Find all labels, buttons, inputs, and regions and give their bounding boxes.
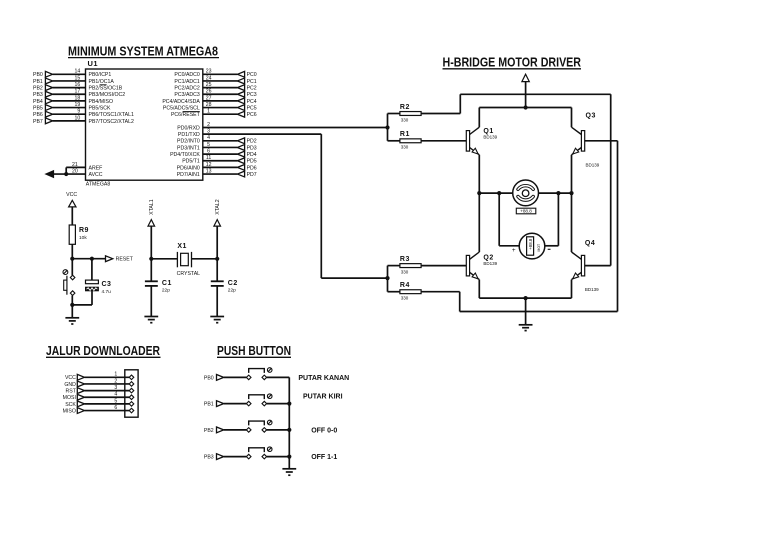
svg-text:PUSH BUTTON: PUSH BUTTON bbox=[217, 343, 291, 358]
terminal PB1 bbox=[33, 78, 53, 85]
ground C1 bbox=[144, 317, 158, 323]
svg-text:MOSI: MOSI bbox=[63, 395, 76, 401]
svg-text:VCC: VCC bbox=[66, 192, 77, 198]
wire U1 AVCC pin 20 bbox=[53, 168, 85, 174]
wire into Q3 base bbox=[585, 140, 618, 142]
svg-text:RESET: RESET bbox=[116, 257, 134, 263]
svg-text:330: 330 bbox=[401, 145, 409, 150]
wire U1 AREF pin 21 bbox=[66, 162, 85, 174]
svg-text:PB2: PB2 bbox=[33, 86, 43, 92]
terminal PC3 bbox=[237, 91, 256, 98]
svg-text:AVCC: AVCC bbox=[89, 172, 103, 178]
wire PC1 to U1 pin 24 bbox=[203, 75, 238, 81]
svg-text:CRYSTAL: CRYSTAL bbox=[177, 271, 201, 277]
pin 1 J1 bbox=[129, 375, 134, 380]
terminal PB0 pushbutton bbox=[204, 375, 224, 382]
svg-text:PC2: PC2 bbox=[247, 86, 257, 92]
wire SCK to J1 pin 5 bbox=[85, 398, 130, 404]
wire TXD to R3/R4 node bbox=[321, 277, 387, 279]
svg-text:9: 9 bbox=[77, 109, 80, 115]
wire PB3 to U1 pin 17 bbox=[53, 89, 86, 95]
wire motor loop right vertical bbox=[557, 193, 559, 246]
terminal PB3 pushbutton bbox=[204, 454, 224, 461]
resistor R2 bbox=[400, 104, 421, 122]
push button 3 bbox=[246, 420, 272, 432]
terminal PB5 bbox=[33, 105, 53, 112]
wire R3 to Q2 base bbox=[421, 265, 466, 267]
wire C3 top to reset wire bbox=[91, 259, 93, 280]
junction bus PB1 bbox=[287, 402, 291, 406]
wire to R2 bbox=[388, 113, 400, 115]
wire button 2 to bus bbox=[267, 403, 290, 405]
resistor R1 bbox=[400, 131, 421, 149]
wire TXD vertical drop bbox=[320, 134, 322, 278]
svg-text:XTAL1: XTAL1 bbox=[149, 199, 155, 215]
svg-text:PC2/ADC2: PC2/ADC2 bbox=[174, 86, 199, 92]
wire mid rail to Q4 collector bbox=[571, 193, 573, 252]
wire Q1 emitter to mid rail bbox=[478, 155, 480, 193]
wire PC4 to U1 pin 27 bbox=[203, 95, 238, 101]
svg-text:4.7u: 4.7u bbox=[102, 289, 112, 295]
wire GND to J1 pin 2 bbox=[85, 378, 130, 384]
svg-text:3: 3 bbox=[114, 385, 117, 391]
terminal PC2 bbox=[237, 85, 256, 92]
wire XTAL1 down bbox=[150, 226, 152, 259]
title H-BRIDGE MOTOR DRIVER bbox=[443, 55, 582, 70]
power VCC arrow bbox=[69, 200, 76, 207]
svg-text:PD6: PD6 bbox=[247, 165, 257, 171]
wire R2 to corner bbox=[421, 113, 460, 115]
svg-text:10k: 10k bbox=[79, 235, 87, 241]
svg-text:PC0: PC0 bbox=[247, 72, 257, 78]
wire PD7 to U1 pin 13 bbox=[203, 168, 238, 174]
terminal XTAL2 bbox=[214, 199, 221, 226]
transistor Q4 bbox=[572, 240, 600, 292]
wire pushbutton ground bus bbox=[288, 377, 290, 468]
svg-text:SCK: SCK bbox=[65, 402, 76, 408]
wire motor loop left vertical bbox=[498, 193, 500, 246]
wire PB1 to U1 pin 15 bbox=[53, 75, 86, 81]
svg-text:+88.8: +88.8 bbox=[528, 238, 533, 250]
svg-text:PB0/ICP1: PB0/ICP1 bbox=[89, 72, 112, 78]
junction TXD node bbox=[385, 276, 389, 280]
svg-text:VCC: VCC bbox=[65, 375, 76, 381]
svg-text:PD3: PD3 bbox=[247, 145, 257, 151]
junction mid rail right bbox=[569, 191, 573, 195]
svg-text:+: + bbox=[512, 247, 516, 254]
wire top rail bbox=[479, 107, 571, 109]
svg-text:PD4/T0/XCK: PD4/T0/XCK bbox=[170, 152, 200, 158]
motor M1 bbox=[513, 180, 539, 206]
wire RST to J1 pin 3 bbox=[85, 385, 130, 391]
svg-text:PD7/AIN1: PD7/AIN1 bbox=[177, 172, 200, 178]
svg-text:15: 15 bbox=[75, 75, 81, 81]
wire PB4 to U1 pin 18 bbox=[53, 95, 86, 101]
junction motor loop left bbox=[497, 191, 501, 195]
wire to R1 bbox=[388, 140, 400, 142]
svg-text:28: 28 bbox=[206, 102, 212, 108]
svg-text:U1: U1 bbox=[88, 59, 99, 68]
wire motor loop left horizontal bbox=[499, 245, 519, 247]
junction XTAL2 node bbox=[215, 257, 219, 261]
push button 4 bbox=[246, 447, 272, 459]
junction motor loop right bbox=[556, 191, 560, 195]
wire XTAL1 node to C1 bbox=[150, 259, 152, 281]
svg-text:PB4: PB4 bbox=[33, 99, 43, 105]
terminal MISO downloader bbox=[63, 408, 85, 415]
svg-text:PC1/ADC1: PC1/ADC1 bbox=[174, 79, 199, 85]
svg-text:+88.8: +88.8 bbox=[520, 209, 532, 214]
terminal PD5 bbox=[237, 158, 256, 165]
terminal PB6 bbox=[33, 111, 53, 118]
connector J1 downloader bbox=[125, 370, 138, 417]
wire XTAL2 down bbox=[216, 226, 218, 259]
terminal PB4 bbox=[33, 98, 53, 105]
wire R2 route down to Q4 base bbox=[610, 94, 612, 265]
wire R4 route up to Q3 base bbox=[617, 141, 619, 312]
svg-text:6: 6 bbox=[114, 405, 117, 411]
wire VCC to J1 pin 1 bbox=[85, 372, 130, 378]
svg-text:330: 330 bbox=[401, 269, 409, 274]
svg-text:PB3: PB3 bbox=[204, 455, 214, 461]
svg-text:6: 6 bbox=[207, 149, 210, 155]
wire bottom rail bbox=[479, 297, 571, 299]
svg-text:C3: C3 bbox=[102, 281, 112, 288]
svg-text:PB5/SCK: PB5/SCK bbox=[89, 105, 111, 111]
junction button/C3 ground node bbox=[70, 303, 74, 307]
wire PD3 to U1 pin 5 bbox=[203, 142, 238, 148]
svg-text:PB5: PB5 bbox=[33, 105, 43, 111]
svg-text:XTAL2: XTAL2 bbox=[215, 199, 221, 215]
svg-text:PD7: PD7 bbox=[247, 172, 257, 178]
wire MOSI to J1 pin 4 bbox=[85, 392, 130, 398]
terminal RST downloader bbox=[66, 388, 85, 395]
terminal PC1 bbox=[237, 78, 256, 85]
label PUTAR KIRI bbox=[303, 394, 343, 401]
svg-text:PB0: PB0 bbox=[204, 375, 214, 381]
ground H-bridge bbox=[519, 325, 533, 331]
svg-text:26: 26 bbox=[206, 89, 212, 95]
wire C2 to ground bbox=[216, 286, 218, 316]
svg-text:25: 25 bbox=[206, 82, 212, 88]
svg-text:PC5/ADC5/SCL: PC5/ADC5/SCL bbox=[163, 105, 200, 111]
wire PB3 to button bbox=[224, 456, 247, 458]
wire R3/R4 branch vertical bbox=[387, 266, 389, 292]
svg-text:PC3: PC3 bbox=[247, 92, 257, 98]
wire mid rail to Q2 collector bbox=[478, 193, 480, 252]
terminal PB7 bbox=[33, 118, 53, 125]
terminal PB2 bbox=[33, 85, 53, 92]
push button 2 bbox=[246, 394, 272, 406]
wire R4 to corner bbox=[421, 291, 460, 293]
svg-text:PUTAR KANAN: PUTAR KANAN bbox=[298, 375, 349, 382]
motor meter M2 bbox=[512, 233, 551, 259]
ground C2 bbox=[210, 317, 224, 323]
terminal PB3 bbox=[33, 91, 53, 98]
power arrow AVCC bbox=[46, 171, 54, 178]
junction XTAL1 node bbox=[149, 257, 153, 261]
svg-text:5: 5 bbox=[114, 398, 117, 404]
terminal PB0 bbox=[33, 71, 53, 78]
wire C3 bottom to node bbox=[72, 291, 92, 305]
svg-text:PD0/RXD: PD0/RXD bbox=[177, 125, 200, 131]
svg-text:PB7/TOSC2/XTAL2: PB7/TOSC2/XTAL2 bbox=[89, 119, 134, 125]
ground reset bbox=[65, 318, 79, 324]
terminal GND downloader bbox=[64, 381, 84, 388]
svg-text:PC3/ADC3: PC3/ADC3 bbox=[174, 92, 199, 98]
svg-text:R4: R4 bbox=[400, 282, 410, 289]
wire XTAL1 node to crystal bbox=[151, 258, 177, 260]
svg-text:3: 3 bbox=[207, 129, 210, 135]
svg-text:PD6/AIN0: PD6/AIN0 bbox=[177, 165, 200, 171]
wire PB7 to U1 pin 10 bbox=[53, 115, 86, 121]
terminal PC4 bbox=[237, 98, 256, 105]
wire Q4 emitter to bottom rail bbox=[571, 280, 573, 299]
label PUTAR KANAN bbox=[298, 375, 349, 382]
wire C1 to ground bbox=[150, 286, 152, 316]
svg-text:PD5: PD5 bbox=[247, 159, 257, 165]
wire top rail to Q1 collector bbox=[478, 108, 480, 128]
svg-text:PB6/TOSC1/XTAL1: PB6/TOSC1/XTAL1 bbox=[89, 112, 134, 118]
resistor R9 bbox=[69, 225, 89, 244]
push button 1 bbox=[246, 368, 272, 380]
wire PC5 to U1 pin 28 bbox=[203, 102, 238, 108]
terminal PC6 bbox=[237, 111, 256, 118]
title JALUR DOWNLOADER bbox=[46, 343, 161, 358]
svg-text:16: 16 bbox=[75, 82, 81, 88]
svg-text:PB1/OC1A: PB1/OC1A bbox=[89, 79, 115, 85]
svg-text:RST: RST bbox=[66, 389, 77, 395]
pin 5 J1 bbox=[129, 402, 134, 407]
svg-text:19: 19 bbox=[75, 102, 81, 108]
svg-text:PB2/SS/OC1B: PB2/SS/OC1B bbox=[89, 86, 123, 92]
transistor Q1 bbox=[466, 127, 497, 155]
svg-text:PB3/MOSI/OC2: PB3/MOSI/OC2 bbox=[89, 92, 126, 98]
wire PD6 to U1 pin 12 bbox=[203, 162, 238, 168]
terminal PD3 bbox=[237, 145, 256, 152]
svg-text:AREF: AREF bbox=[89, 165, 103, 171]
wire R2 route up bbox=[459, 94, 461, 113]
wire node to ground bbox=[71, 305, 73, 318]
svg-text:PD2/INT0: PD2/INT0 bbox=[177, 139, 200, 145]
junction AREF/AVCC bbox=[64, 172, 68, 176]
svg-text:BD139: BD139 bbox=[483, 135, 497, 140]
wire top rail to Q3 collector bbox=[571, 108, 573, 128]
wire VCC to R9 bbox=[71, 207, 73, 225]
svg-text:PC4: PC4 bbox=[247, 99, 257, 105]
junction reset node bbox=[70, 257, 74, 261]
svg-text:20: 20 bbox=[72, 168, 78, 174]
svg-text:MOT: MOT bbox=[537, 244, 541, 252]
terminal PD4 bbox=[237, 151, 256, 158]
wire R1 to Q1 base bbox=[421, 140, 466, 142]
svg-text:C2: C2 bbox=[228, 280, 238, 287]
svg-text:22p: 22p bbox=[228, 287, 236, 293]
svg-text:Q3: Q3 bbox=[586, 113, 596, 120]
svg-text:10: 10 bbox=[75, 115, 81, 121]
terminal PB1 pushbutton bbox=[204, 401, 224, 408]
junction VCC top rail bbox=[524, 105, 528, 109]
svg-text:PC4/ADC4/SDA: PC4/ADC4/SDA bbox=[162, 99, 200, 105]
capacitor C1 bbox=[145, 280, 172, 294]
svg-text:12: 12 bbox=[206, 162, 212, 168]
wire PB2 to U1 pin 16 bbox=[53, 82, 86, 88]
svg-text:BD139: BD139 bbox=[586, 162, 600, 167]
svg-text:PC5: PC5 bbox=[247, 105, 257, 111]
svg-text:PD1/TXD: PD1/TXD bbox=[178, 132, 200, 138]
wire R4 route down bbox=[459, 292, 461, 312]
svg-text:PC0/ADC0: PC0/ADC0 bbox=[174, 72, 199, 78]
terminal PC0 bbox=[237, 71, 256, 78]
svg-text:PB4/MISO: PB4/MISO bbox=[89, 99, 114, 105]
svg-text:2: 2 bbox=[114, 378, 117, 384]
terminal PD6 bbox=[237, 165, 256, 172]
svg-text:PB7: PB7 bbox=[33, 119, 43, 125]
terminal PD2 bbox=[237, 138, 256, 145]
svg-text:11: 11 bbox=[206, 155, 211, 161]
wire node to button bbox=[71, 259, 73, 276]
wire PC3 to U1 pin 26 bbox=[203, 89, 238, 95]
svg-text:MISO: MISO bbox=[63, 408, 76, 414]
svg-text:1: 1 bbox=[207, 109, 210, 115]
title MINIMUM SYSTEM ATMEGA8 bbox=[68, 43, 219, 58]
wire PD0/RXD U1 pin 2 to H-bridge bbox=[203, 122, 388, 128]
svg-text:Q4: Q4 bbox=[585, 240, 595, 247]
svg-text:PC6/RESET: PC6/RESET bbox=[171, 112, 201, 118]
junction mid rail left bbox=[477, 191, 481, 195]
wire PD5 to U1 pin 11 bbox=[203, 155, 238, 161]
wire into Q4 base bbox=[585, 265, 611, 267]
svg-text:17: 17 bbox=[75, 89, 81, 95]
terminal XTAL1 bbox=[148, 199, 155, 226]
wire mid rail left segment bbox=[479, 192, 512, 194]
svg-text:GND: GND bbox=[64, 382, 76, 388]
crystal X1 bbox=[177, 243, 201, 277]
power VCC label bbox=[66, 192, 77, 198]
capacitor C2 bbox=[211, 280, 238, 294]
svg-text:C1: C1 bbox=[162, 280, 172, 287]
svg-text:JALUR DOWNLOADER: JALUR DOWNLOADER bbox=[46, 343, 160, 358]
svg-text:PUTAR KIRI: PUTAR KIRI bbox=[303, 394, 343, 401]
svg-text:OFF 0-0: OFF 0-0 bbox=[311, 427, 337, 434]
svg-text:BD139: BD139 bbox=[483, 261, 497, 266]
wire button 4 to bus bbox=[267, 456, 290, 458]
title PUSH BUTTON bbox=[217, 343, 291, 358]
wire PB1 to button bbox=[224, 403, 247, 405]
wire R2 route top bbox=[460, 93, 610, 95]
svg-text:PD5/T1: PD5/T1 bbox=[182, 159, 200, 165]
wire button to ground node bbox=[71, 295, 73, 305]
pin 4 J1 bbox=[129, 395, 134, 400]
wire motor loop right horizontal bbox=[545, 245, 559, 247]
svg-text:PC1: PC1 bbox=[247, 79, 257, 85]
svg-text:PB0: PB0 bbox=[33, 72, 43, 78]
pin 2 J1 bbox=[129, 382, 134, 387]
wire PC6 to U1 pin 1 bbox=[203, 109, 238, 115]
svg-text:R3: R3 bbox=[400, 256, 410, 263]
terminal RESET bbox=[106, 256, 134, 263]
wire MISO to J1 pin 6 bbox=[85, 405, 130, 411]
IC U1 ATMEGA8 bbox=[86, 59, 203, 188]
label OFF 1-1 bbox=[311, 454, 337, 461]
svg-text:5: 5 bbox=[207, 142, 210, 148]
svg-text:PD4: PD4 bbox=[247, 152, 257, 158]
transistor Q3 bbox=[572, 113, 600, 168]
svg-text:ATMEGA8: ATMEGA8 bbox=[86, 182, 111, 188]
svg-text:1: 1 bbox=[114, 372, 117, 378]
svg-text:21: 21 bbox=[72, 162, 78, 168]
wire R9 to reset node bbox=[71, 244, 73, 258]
wire R4 route bottom bbox=[460, 311, 618, 313]
svg-text:24: 24 bbox=[206, 75, 212, 81]
pin 6 J1 bbox=[129, 408, 134, 413]
wire PB0 to U1 pin 14 bbox=[53, 69, 86, 75]
power VCC arrow H-bridge bbox=[522, 74, 529, 81]
svg-text:R9: R9 bbox=[79, 227, 89, 234]
wire PB5 to U1 pin 19 bbox=[53, 102, 86, 108]
label OFF 0-0 bbox=[311, 427, 337, 434]
svg-text:OFF 1-1: OFF 1-1 bbox=[311, 454, 337, 461]
svg-text:18: 18 bbox=[75, 95, 81, 101]
wire PD1/TXD U1 pin 3 horizontal bbox=[203, 129, 321, 135]
svg-text:MINIMUM SYSTEM ATMEGA8: MINIMUM SYSTEM ATMEGA8 bbox=[68, 43, 218, 58]
terminal PD7 bbox=[237, 171, 256, 178]
wire PD2 to U1 pin 4 bbox=[203, 135, 238, 141]
svg-text:4: 4 bbox=[114, 392, 117, 398]
wire PC2 to U1 pin 25 bbox=[203, 82, 238, 88]
svg-text:PD3/INT1: PD3/INT1 bbox=[177, 145, 200, 151]
svg-text:27: 27 bbox=[206, 95, 212, 101]
svg-text:PB2: PB2 bbox=[204, 428, 214, 434]
resistor R3 bbox=[400, 256, 421, 274]
junction bus PB3 bbox=[287, 455, 291, 459]
wire bottom rail to ground bbox=[525, 298, 527, 325]
svg-text:R2: R2 bbox=[400, 104, 410, 111]
junction RXD node bbox=[385, 125, 389, 129]
junction bus PB2 bbox=[287, 428, 291, 432]
terminal PC5 bbox=[237, 105, 256, 112]
wire PC0 to U1 pin 23 bbox=[203, 69, 238, 75]
ground pushbutton bbox=[282, 469, 296, 475]
svg-text:22p: 22p bbox=[162, 287, 170, 293]
terminal MOSI downloader bbox=[63, 394, 85, 401]
wire reset node to RESET terminal bbox=[72, 258, 105, 260]
wire PB0 to button bbox=[224, 376, 247, 378]
svg-text:R1: R1 bbox=[400, 131, 410, 138]
svg-text:PB1: PB1 bbox=[204, 402, 214, 408]
wire PD4 to U1 pin 6 bbox=[203, 149, 238, 155]
svg-text:330: 330 bbox=[401, 117, 409, 122]
motor display +88.8 bbox=[516, 208, 536, 214]
wire to R4 bbox=[388, 291, 400, 293]
svg-text:BD139: BD139 bbox=[585, 287, 599, 292]
wire R2/R1 branch vertical bbox=[387, 114, 389, 141]
wire XTAL2 node to C2 bbox=[216, 259, 218, 281]
svg-text:2: 2 bbox=[207, 122, 210, 128]
svg-text:14: 14 bbox=[75, 69, 81, 75]
resistor R4 bbox=[400, 282, 421, 300]
wire VCC to top rail bbox=[525, 82, 527, 108]
svg-text:PB6: PB6 bbox=[33, 112, 43, 118]
junction C3 branch bbox=[90, 257, 94, 261]
wire PB6 to U1 pin 9 bbox=[53, 109, 86, 115]
wire button 1 to bus bbox=[267, 376, 290, 378]
wire to R3 bbox=[388, 265, 400, 267]
svg-text:330: 330 bbox=[401, 296, 409, 301]
terminal PB2 pushbutton bbox=[204, 427, 224, 434]
junction bottom rail ground bbox=[524, 296, 528, 300]
wire PB2 to button bbox=[224, 429, 247, 431]
